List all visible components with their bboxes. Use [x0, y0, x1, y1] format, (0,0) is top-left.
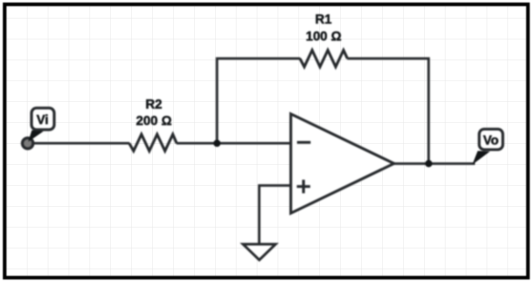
wire R1 to right corner down to output node: [347, 59, 428, 164]
svg-text:R2: R2: [145, 96, 162, 111]
wire input Vi to R2: [27, 142, 129, 145]
Vi label pointer wedge: [28, 130, 43, 142]
output node junction dot: [425, 160, 432, 167]
resistor R2: [129, 134, 177, 151]
input terminal node: [22, 138, 33, 149]
op-amp U1 triangle: [291, 114, 394, 213]
node A junction dot (R2 / feedback): [213, 140, 220, 147]
svg-text:R1: R1: [315, 12, 332, 27]
wire op-amp non-inverting input to ground: [259, 186, 291, 245]
svg-text:Vo: Vo: [483, 133, 499, 148]
Vo label box: [479, 129, 503, 150]
svg-text:Vi: Vi: [36, 112, 48, 127]
op-amp non-inverting pin plus sign: [297, 180, 310, 194]
svg-text:200 Ω: 200 Ω: [136, 113, 172, 128]
wire op-amp output to Vo: [394, 162, 476, 165]
Vi label box: [32, 108, 55, 130]
ground: [243, 244, 276, 260]
resistor R1: [300, 50, 348, 67]
wire R2 to op-amp inverting input: [177, 142, 291, 145]
wire feedback: node A up and across to R1: [217, 59, 300, 144]
Vo label pointer wedge: [472, 151, 490, 165]
op-amp inverting pin minus sign: [297, 141, 311, 144]
svg-text:100 Ω: 100 Ω: [306, 28, 342, 43]
